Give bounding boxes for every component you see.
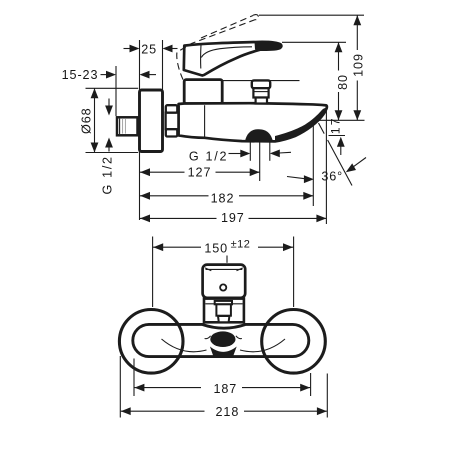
- diverter knob cap: [252, 80, 270, 88]
- G1/2 threaded inlet stub: [117, 117, 138, 135]
- left escutcheon circle: [119, 310, 183, 374]
- svg-text:109: 109: [351, 53, 365, 77]
- dimension 25 extension line: [162, 40, 164, 90]
- svg-text:80: 80: [336, 74, 350, 90]
- dimension 15-23 arrows: [101, 74, 108, 76]
- diverter knob body: [253, 88, 268, 97]
- dimension 218: [121, 410, 205, 412]
- svg-text:36°: 36°: [321, 169, 343, 183]
- 36 degree construction line: [319, 123, 325, 134]
- svg-text:182: 182: [211, 191, 235, 205]
- dimension 80: [338, 42, 340, 70]
- svg-text:150: 150: [204, 242, 228, 256]
- body and spout outline: [179, 103, 327, 141]
- dimension 15-23 extension line: [115, 66, 117, 116]
- neck collar (front): [204, 299, 244, 323]
- body rear divider: [204, 105, 206, 136]
- svg-text:25: 25: [141, 43, 157, 57]
- dimension 197: [140, 217, 217, 219]
- dimension 187: [134, 387, 201, 389]
- dimension 187 extension lines: [133, 359, 135, 397]
- diverter stack front: [215, 301, 232, 304]
- dimension 109: [356, 15, 358, 50]
- dimension 197 extension line (spout tip): [325, 106, 327, 224]
- handle tip black: [255, 42, 282, 50]
- moustache curve left: [162, 339, 207, 352]
- center stub line: [226, 256, 228, 263]
- diverter knob stem: [256, 98, 267, 104]
- moustache curve right: [240, 339, 285, 352]
- G 1/2 bottom outlet extension lines: [249, 141, 251, 161]
- dimension 25 arrows: [124, 48, 131, 50]
- extension line spout outlet: [315, 119, 365, 121]
- cartridge cap: [184, 80, 222, 104]
- dimension 17: [329, 135, 346, 137]
- handle lever (solid): [184, 42, 282, 76]
- svg-text:±12: ±12: [231, 239, 251, 251]
- extension line top (109): [259, 14, 364, 16]
- spout front black ellipse: [210, 331, 235, 347]
- dimension diameter 68 line and arrows: [94, 88, 96, 152]
- aerator cup (front): [210, 347, 237, 358]
- svg-text:G 1/2: G 1/2: [189, 150, 228, 164]
- shower outlet bump: [245, 129, 273, 141]
- dimension diameter 68 extension lines: [86, 87, 139, 89]
- body rear top ledge: [223, 80, 300, 82]
- svg-text:Ø68: Ø68: [79, 107, 93, 134]
- svg-text:218: 218: [216, 405, 240, 419]
- spout tip black wedge: [275, 108, 326, 142]
- 36 degree leader arrows: [287, 177, 305, 179]
- svg-text:G 1/2: G 1/2: [101, 155, 115, 194]
- union hex nut: [166, 113, 179, 130]
- svg-text:17: 17: [328, 116, 342, 134]
- svg-text:197: 197: [221, 211, 245, 225]
- dimension 150 line and arrows: [153, 246, 201, 248]
- right escutcheon circle: [262, 310, 326, 374]
- extension line handle top (80): [282, 41, 346, 43]
- handle dot: [220, 284, 226, 290]
- G 1/2 left callout arrows: [108, 99, 110, 107]
- dimension 150 extension lines: [152, 237, 154, 308]
- svg-text:15-23: 15-23: [62, 68, 99, 82]
- svg-text:127: 127: [188, 166, 212, 180]
- dimension 127: [140, 171, 185, 173]
- dimension 127 extension line (outlet center): [259, 141, 261, 181]
- handle (front): [203, 265, 246, 298]
- dimension 182: [140, 195, 209, 197]
- svg-text:187: 187: [213, 382, 237, 396]
- wire wall reference line: [139, 40, 141, 220]
- dimension 182 extension line (spout tip underside): [312, 123, 314, 207]
- body pill (front): [133, 324, 309, 356]
- dimension 218 extension lines: [119, 356, 121, 418]
- escutcheon (wall plate, side): [140, 90, 163, 152]
- handle interior lines: [200, 45, 202, 69]
- handle lever raised (dashed): [177, 15, 259, 81]
